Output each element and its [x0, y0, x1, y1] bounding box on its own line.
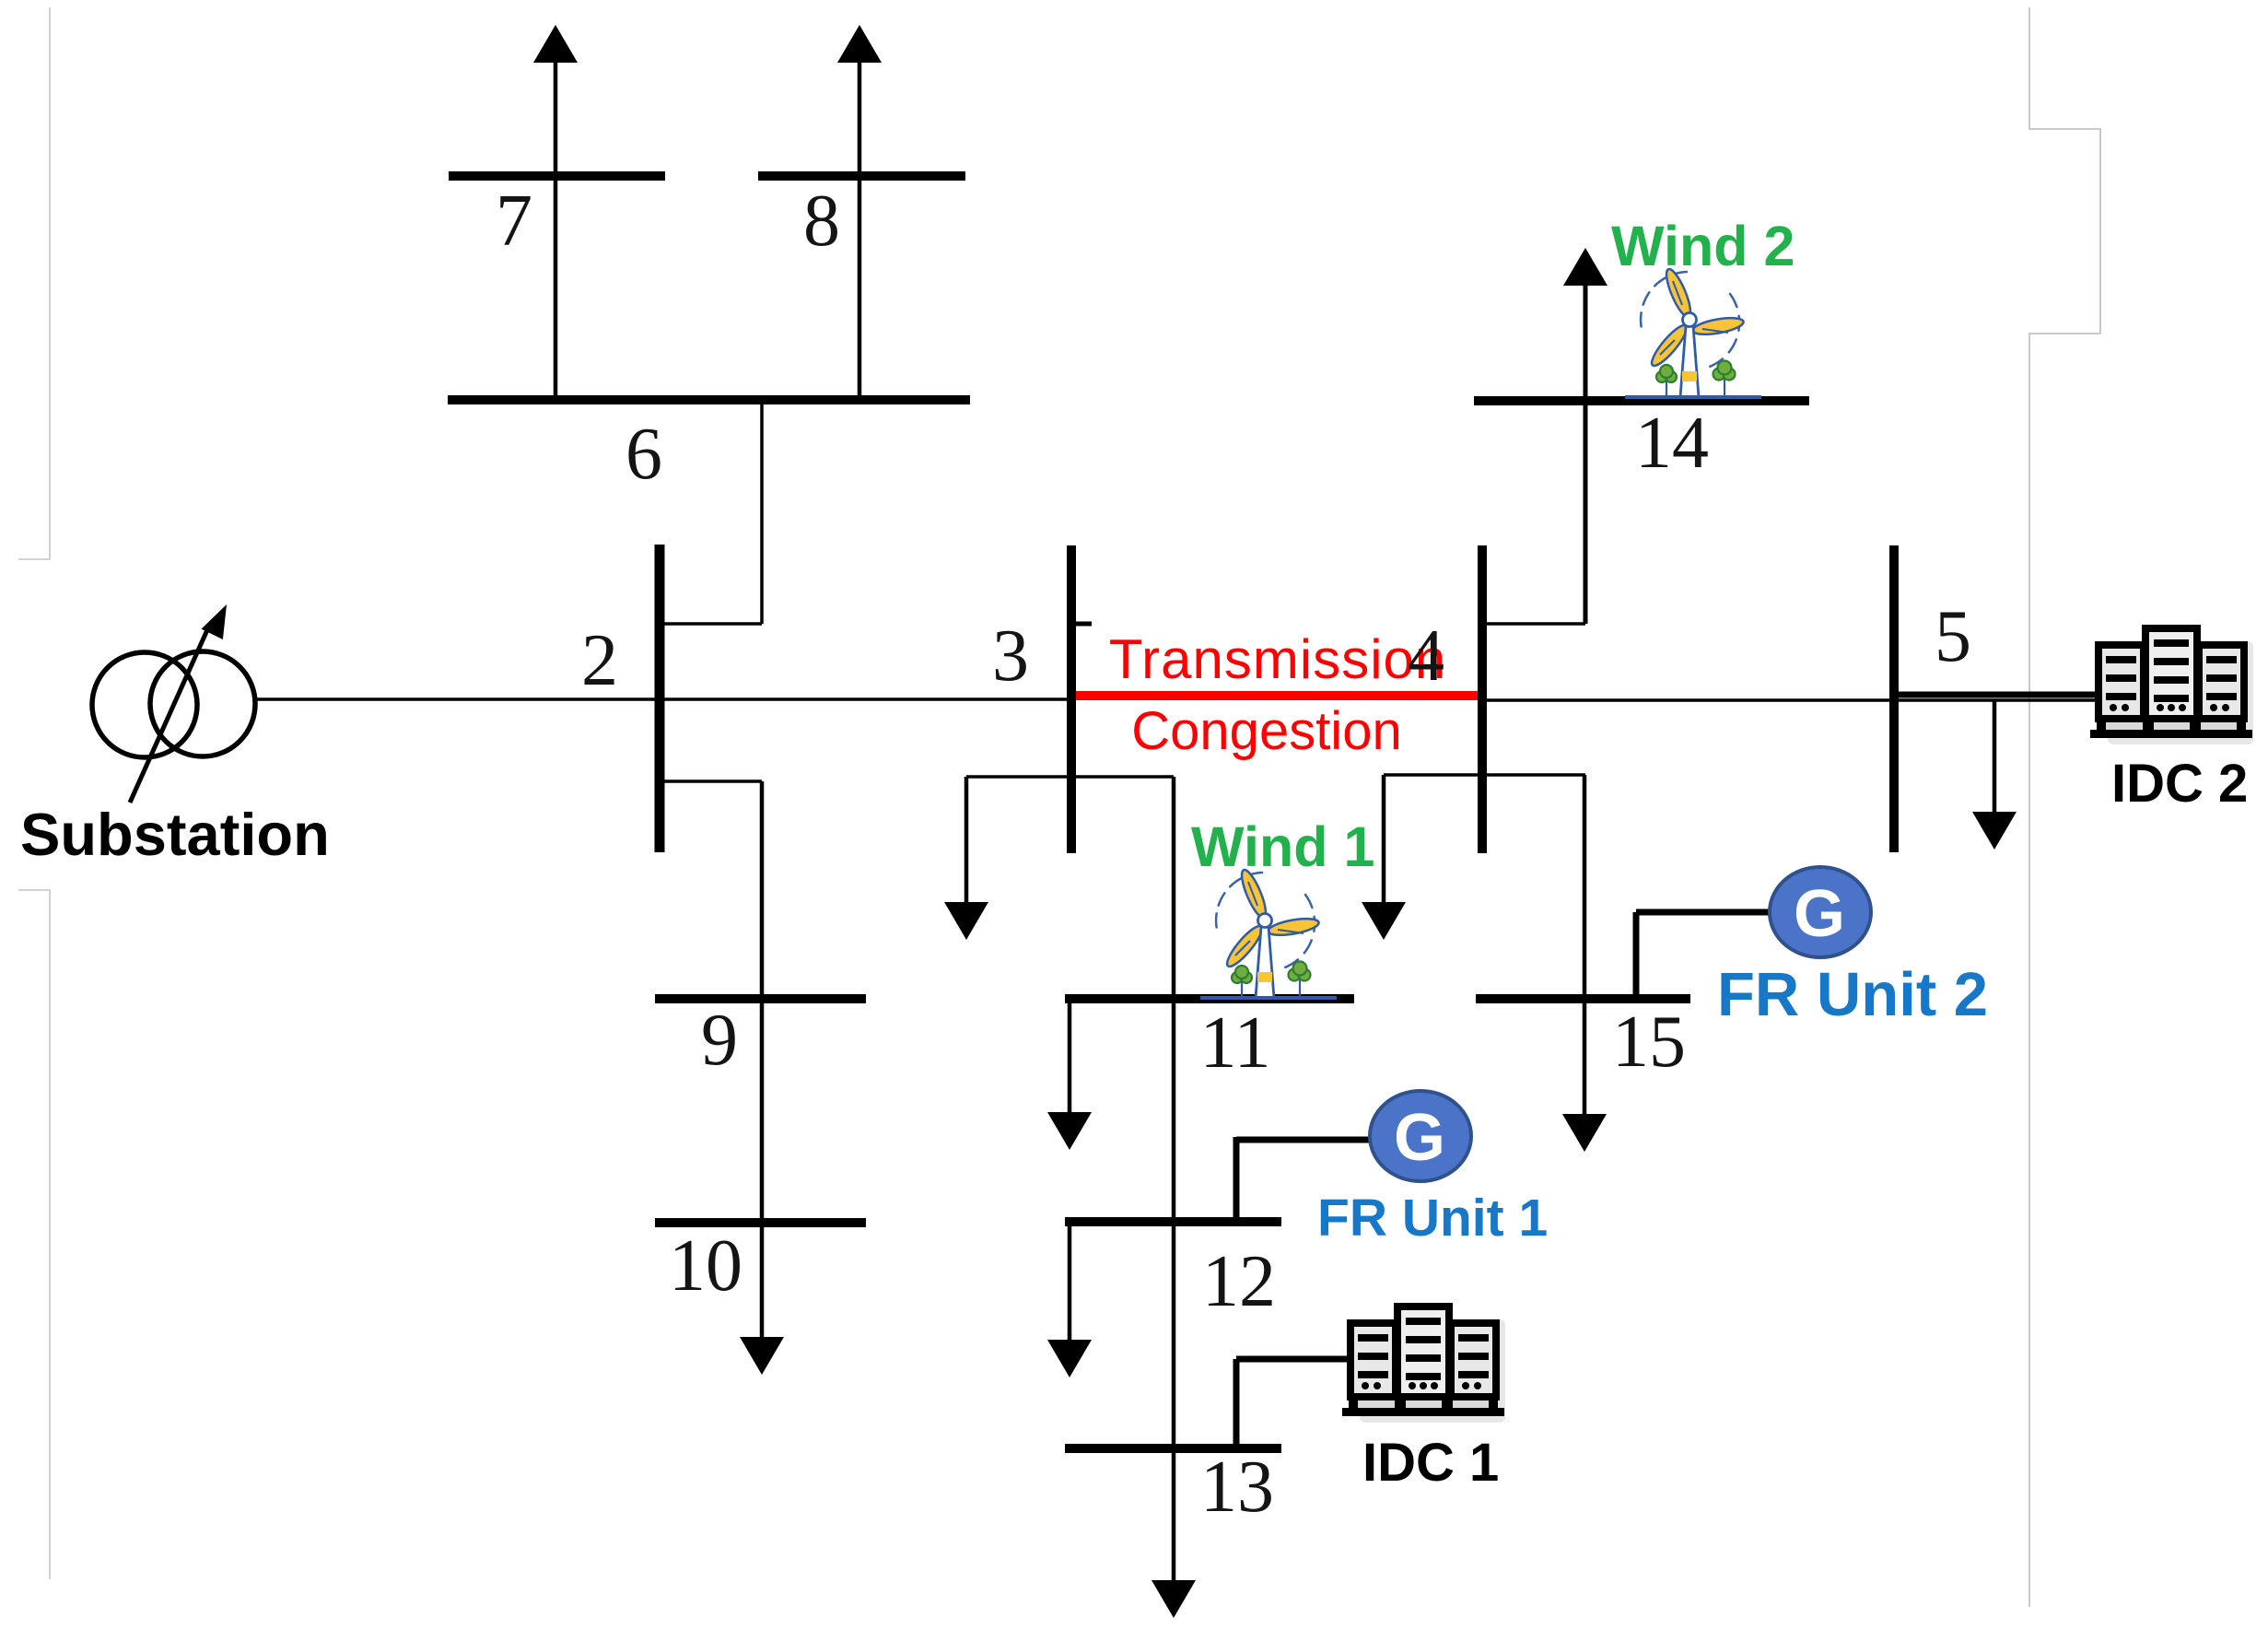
- svg-text:9: 9: [701, 1000, 738, 1081]
- svg-text:10: 10: [669, 1225, 742, 1307]
- svg-text:13: 13: [1200, 1447, 1274, 1528]
- svg-text:8: 8: [803, 181, 840, 262]
- svg-text:12: 12: [1202, 1241, 1276, 1322]
- svg-text:5: 5: [1935, 596, 1971, 677]
- svg-text:4: 4: [1408, 615, 1444, 697]
- svg-text:Wind 2: Wind 2: [1611, 215, 1795, 277]
- svg-text:Wind 1: Wind 1: [1191, 815, 1374, 878]
- svg-text:6: 6: [625, 414, 662, 495]
- svg-text:FR Unit 2: FR Unit 2: [1717, 960, 1988, 1029]
- svg-text:2: 2: [581, 620, 618, 701]
- svg-text:15: 15: [1612, 1002, 1686, 1083]
- svg-text:7: 7: [496, 181, 532, 262]
- svg-text:Congestion: Congestion: [1131, 701, 1401, 761]
- svg-text:IDC 2: IDC 2: [2111, 754, 2248, 814]
- svg-text:3: 3: [992, 615, 1029, 697]
- svg-text:Transmission: Transmission: [1109, 628, 1447, 690]
- svg-text:11: 11: [1199, 1002, 1270, 1084]
- svg-text:Substation: Substation: [20, 801, 330, 868]
- svg-text:FR Unit 1: FR Unit 1: [1317, 1189, 1548, 1248]
- svg-text:14: 14: [1635, 403, 1709, 484]
- svg-text:IDC 1: IDC 1: [1362, 1433, 1499, 1493]
